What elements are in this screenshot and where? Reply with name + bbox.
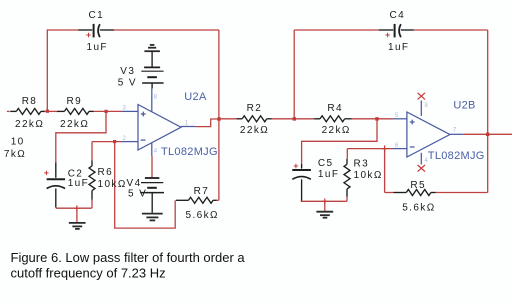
svg-text:5 V: 5 V	[128, 189, 147, 200]
wire x219 to R2	[219, 118, 237, 120]
wire R6 bottom	[91, 200, 93, 209]
svg-text:1uF: 1uF	[388, 42, 409, 53]
svg-text:5.6kΩ: 5.6kΩ	[186, 210, 219, 221]
svg-text:C4: C4	[390, 10, 406, 21]
wire U2B output to edge	[464, 133, 512, 135]
svg-text:5.6kΩ: 5.6kΩ	[402, 202, 435, 213]
wire plus-node down to C2	[56, 111, 106, 162]
svg-text:R4: R4	[327, 103, 343, 114]
polarity plus C4	[385, 33, 389, 37]
wire between R8 and R9	[43, 110, 57, 112]
svg-text:R9: R9	[67, 96, 83, 107]
capacitor C4	[379, 24, 414, 38]
wire C4 top right	[414, 29, 488, 31]
node junction minus-node U2A	[113, 140, 116, 143]
node junction R4-plus	[375, 117, 378, 120]
op-amp U2B	[393, 101, 464, 165]
wire input stub	[7, 110, 10, 112]
polarity plus C1	[86, 33, 90, 37]
svg-text:1uF: 1uF	[318, 169, 339, 180]
svg-text:10: 10	[11, 137, 25, 148]
svg-text:C1: C1	[89, 10, 105, 21]
resistor R9	[57, 108, 94, 114]
wire R2 to R4	[272, 118, 315, 120]
wire C4 top left	[294, 29, 379, 31]
ground below V4	[142, 214, 163, 221]
wire right vertical x488	[487, 30, 489, 193]
svg-text:R7: R7	[194, 186, 210, 197]
wire C5 R3 ground rail	[301, 200, 347, 202]
svg-text:8: 8	[425, 103, 429, 109]
svg-text:10kΩ: 10kΩ	[98, 179, 127, 190]
wire V4 pin red segment	[151, 156, 153, 178]
svg-text:V3: V3	[120, 66, 135, 77]
svg-text:TL082MJG: TL082MJG	[161, 146, 218, 158]
wire minus node down to R5	[384, 149, 386, 193]
svg-text:1: 1	[185, 121, 189, 127]
no-connect X top U2B	[418, 93, 425, 100]
svg-text:cutoff frequency of 7.23 Hz: cutoff frequency of 7.23 Hz	[11, 266, 166, 281]
svg-text:7kΩ: 7kΩ	[4, 149, 26, 160]
wire R5 left lead red	[385, 192, 394, 194]
wire C2 R6 ground rail	[56, 207, 92, 209]
wire right vertical x219 (C1 to output to R7)	[218, 30, 220, 200]
wire ground stub right	[324, 201, 326, 211]
wire R4 to U2B plus	[352, 118, 393, 120]
svg-text:R5: R5	[410, 180, 426, 191]
svg-text:R8: R8	[22, 96, 38, 107]
wire R9 to opamp plus	[94, 110, 122, 112]
ground below C2 R6	[69, 223, 86, 229]
wire R3 top	[346, 149, 348, 159]
ground inverted above V3	[144, 45, 160, 51]
op-amp U2A	[122, 88, 195, 156]
ground below C5 R3	[316, 212, 333, 218]
resistor R5	[394, 190, 436, 196]
wire R3 bottom	[346, 197, 348, 202]
wire R7 right to x219	[216, 199, 219, 201]
wire minus row U2B	[347, 148, 392, 150]
wire C1 feedback left vertical	[47, 30, 78, 111]
svg-text:22kΩ: 22kΩ	[15, 119, 44, 130]
svg-text:R6: R6	[98, 167, 114, 178]
wire ground stub left	[76, 208, 78, 222]
svg-text:3: 3	[123, 106, 127, 112]
resistor R7	[176, 197, 217, 203]
svg-text:5 V: 5 V	[118, 77, 137, 88]
node junction output U2B	[486, 133, 489, 136]
wire U2A output step	[195, 119, 219, 127]
resistor R6 vertical	[89, 160, 95, 199]
svg-text:22kΩ: 22kΩ	[240, 125, 269, 136]
svg-text:22kΩ: 22kΩ	[322, 125, 351, 136]
resistor R2	[237, 116, 272, 122]
svg-text:R2: R2	[247, 103, 263, 114]
node junction R8-R9	[46, 110, 49, 113]
battery V4	[140, 178, 164, 213]
capacitor C5 vertical	[292, 164, 311, 201]
polarity plus C5	[294, 164, 298, 168]
resistor R4	[314, 116, 351, 122]
node junction ground tap left	[74, 205, 80, 211]
wire minus node down rail to R7	[115, 142, 176, 229]
node junction plus-node	[105, 110, 108, 113]
capacitor C1	[78, 24, 114, 38]
wire R4 node down to C5	[302, 119, 377, 164]
svg-text:U2A: U2A	[184, 91, 207, 103]
svg-text:TL082MJG: TL082MJG	[428, 150, 485, 162]
node junction R2-R4	[293, 117, 296, 120]
svg-text:1uF: 1uF	[87, 42, 108, 53]
resistor R8	[10, 108, 44, 114]
wire C1 top right	[114, 29, 219, 31]
svg-text:U2B: U2B	[453, 100, 475, 112]
svg-text:Figure 6. Low pass filter of f: Figure 6. Low pass filter of fourth orde…	[11, 250, 246, 265]
svg-text:10kΩ: 10kΩ	[354, 170, 383, 181]
polarity plus C2	[44, 171, 48, 175]
svg-text:22kΩ: 22kΩ	[60, 119, 89, 130]
svg-text:C5: C5	[318, 158, 334, 169]
svg-text:1uF: 1uF	[68, 178, 89, 189]
wire minus row U2A	[92, 141, 122, 143]
node junction ground tap right	[322, 199, 328, 205]
svg-text:R3: R3	[354, 159, 370, 170]
svg-text:7: 7	[453, 128, 457, 134]
wire R5 right to x488	[436, 192, 488, 194]
svg-text:8: 8	[154, 95, 158, 101]
capacitor C2 vertical	[47, 163, 66, 208]
resistor R3 vertical	[344, 159, 350, 197]
svg-text:4: 4	[154, 149, 158, 155]
no-connect X bottom U2B	[418, 165, 425, 172]
node junction output U2A	[217, 117, 220, 120]
wire C4 feedback left vertical	[293, 30, 295, 119]
svg-text:5: 5	[395, 113, 399, 119]
battery V3	[141, 51, 163, 88]
node junction minus-node U2B	[382, 146, 388, 152]
wire R6 top	[91, 142, 93, 161]
